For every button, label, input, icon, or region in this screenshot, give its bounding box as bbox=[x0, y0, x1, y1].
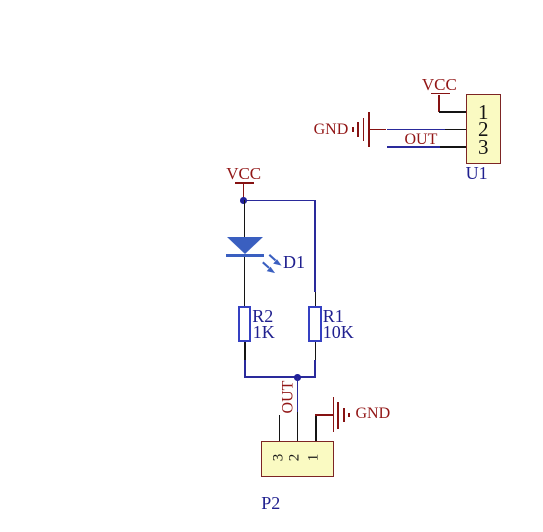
LED D1 bbox=[226, 236, 286, 276]
pin number 3 (P2) bbox=[271, 454, 286, 462]
resistor R2 bbox=[238, 306, 251, 342]
pin number 2 (P2) bbox=[288, 453, 303, 461]
designator U1 bbox=[466, 164, 488, 182]
connector P2 bbox=[261, 441, 334, 477]
wire junction to R1 branch bbox=[244, 200, 317, 202]
designator R2 bbox=[252, 307, 273, 325]
wire junction to P2 pin 2 bbox=[297, 377, 299, 412]
power VCC (U1 net) bbox=[411, 76, 471, 106]
designator D1 bbox=[283, 253, 305, 271]
net label OUT (rotated) bbox=[280, 380, 296, 413]
junction node A bbox=[240, 197, 247, 204]
value 1K bbox=[253, 323, 275, 341]
pin number 2 (U1) bbox=[478, 119, 489, 140]
wire LED cathode to R2 bbox=[244, 257, 246, 307]
wire bottom bus bbox=[244, 360, 246, 378]
pin number 3 (U1) bbox=[478, 137, 489, 158]
ground GND (U1 net) bbox=[310, 108, 372, 150]
net label OUT (U1) bbox=[405, 132, 438, 148]
wire P2 pin 1 to GND bbox=[315, 415, 317, 442]
wire R1 bottom pin bbox=[315, 342, 317, 360]
wire junction to LED anode bbox=[244, 200, 246, 237]
wire OUT to U1 pin 3 bbox=[387, 146, 441, 148]
wire VCC to U1 pin 1 bbox=[439, 111, 467, 113]
junction node B bbox=[294, 374, 301, 381]
power VCC (mid net) bbox=[215, 165, 275, 197]
pin number 1 (P2) bbox=[307, 454, 322, 462]
connector U1 bbox=[466, 94, 501, 165]
wire R1 top pin bbox=[315, 292, 317, 307]
designator P2 bbox=[261, 494, 280, 512]
value 10K bbox=[323, 323, 354, 341]
wire R2 bottom pin bbox=[244, 342, 246, 360]
designator R1 bbox=[323, 307, 344, 325]
wire P2 pin 3 stub bbox=[279, 415, 281, 442]
resistor R1 bbox=[308, 306, 322, 342]
pin number 1 (U1) bbox=[478, 102, 489, 123]
wire GND to U1 pin 2 bbox=[370, 129, 387, 131]
ground GND (P2 net) bbox=[332, 395, 392, 435]
